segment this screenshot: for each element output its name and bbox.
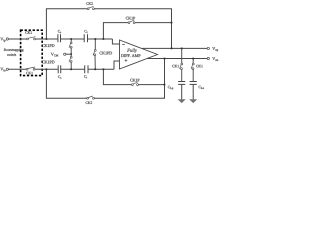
- bootstrapping switch box: [21, 30, 43, 75]
- label CK1 load left: [172, 65, 179, 67]
- capacitor CLn: [190, 82, 197, 100]
- label CK1PD shorting: [100, 52, 112, 55]
- input terminal V_ip: [6, 38, 8, 40]
- op-amp plus input mark: [125, 59, 128, 62]
- wire top outer feedback left: [46, 9, 87, 39]
- node bottom outer tap: [46, 68, 48, 70]
- switch CK1PD top to VCM: [69, 39, 72, 54]
- node bottom VCM switch tap: [70, 68, 72, 70]
- wire Cs to Ci bottom: [61, 68, 85, 70]
- label switch: [7, 53, 16, 55]
- switch CK1 top: [27, 37, 36, 40]
- terminal V_op: [207, 47, 209, 49]
- wire Ci bottom to amp: [88, 68, 114, 70]
- node V_op load junction: [181, 48, 183, 50]
- label CK1PD vcm-bottom: [42, 61, 54, 64]
- switch CK1 load V_on branch: [191, 59, 194, 82]
- node top inner tap: [103, 38, 105, 40]
- switch CK1 load V_op branch: [180, 48, 183, 81]
- label CK2 top: [86, 2, 92, 4]
- wire VCM: [66, 53, 71, 55]
- label CK1P bottom: [130, 79, 139, 82]
- capacitor Ci top: [84, 34, 87, 42]
- wire bottom inner feedback right: [139, 84, 165, 86]
- wire V_in to CK1: [8, 68, 26, 70]
- wire bottom outer feedback left: [46, 69, 86, 98]
- wire bottom inner feedback left: [103, 69, 131, 84]
- terminal VCM: [64, 53, 66, 55]
- node bottom inner tap: [103, 68, 105, 70]
- node bottom feedback merge: [164, 84, 166, 86]
- label CK1P top: [126, 17, 135, 20]
- switch CK1P bottom: [132, 82, 139, 85]
- node top feedback merge: [171, 22, 173, 24]
- label Cs bottom: [58, 76, 61, 79]
- label Fully: [127, 49, 137, 53]
- label Cs top: [58, 30, 61, 33]
- label V_ip: [0, 38, 5, 42]
- switch CK2 bottom: [87, 96, 95, 99]
- terminal V_on: [207, 57, 209, 59]
- capacitor Cs bottom: [58, 65, 61, 73]
- label VCM: [51, 53, 58, 57]
- node V_op feedback junction: [171, 48, 173, 50]
- label Ci bottom: [84, 75, 87, 78]
- wire top inner feedback left: [103, 23, 128, 39]
- switch CK1P top: [128, 20, 135, 23]
- node V_on load junction: [192, 58, 194, 60]
- label CK2 bottom: [86, 102, 92, 104]
- wire output V_on: [147, 58, 207, 60]
- node top VCM switch tap: [70, 38, 72, 40]
- wire Cs to Ci top: [61, 38, 85, 40]
- label V_on: [212, 57, 218, 61]
- label DIFF. AMP: [121, 54, 140, 57]
- label CK1 load right: [196, 65, 203, 67]
- switch CK2 top: [87, 6, 94, 9]
- capacitor Ci bottom: [85, 65, 88, 73]
- op-amp minus input mark: [122, 43, 125, 45]
- label V_op: [212, 47, 218, 51]
- capacitor CLp: [178, 82, 185, 100]
- label CK1 bottom: [26, 72, 33, 74]
- label CLn: [199, 86, 204, 89]
- input terminal V_in: [6, 68, 8, 70]
- ground V_on branch: [189, 99, 197, 103]
- wire V_ip to CK1: [8, 38, 26, 40]
- node VCM: [70, 53, 72, 55]
- wire bottom outer feedback right: [95, 59, 165, 99]
- label Ci top: [84, 30, 87, 33]
- wire top inner feedback right: [135, 22, 171, 24]
- wire top outer feedback right: [95, 9, 172, 49]
- switch CK1PD input shorting: [93, 39, 96, 69]
- node V_on feedback junction: [164, 58, 166, 60]
- label Bootstrapping: [4, 49, 24, 52]
- wire Ci top to amp: [88, 38, 113, 40]
- label V_in: [0, 68, 5, 72]
- capacitor Cs top: [58, 34, 61, 42]
- label CK1 top: [25, 31, 32, 33]
- ground V_op branch: [178, 99, 186, 103]
- wire output V_op: [142, 47, 207, 49]
- node bottom shorting switch tap: [94, 68, 96, 70]
- label CLp: [168, 86, 173, 90]
- switch CK1PD bottom to VCM: [69, 54, 72, 69]
- node top shorting switch tap: [94, 38, 96, 40]
- wire bottom step into amp: [114, 61, 120, 69]
- wire CK1 to Cs bottom: [35, 68, 58, 70]
- node top outer tap: [46, 38, 48, 40]
- wire CK1 to Cs top: [36, 38, 58, 40]
- switch CK1 bottom: [26, 67, 35, 70]
- op-amp U1 fully differential: [120, 40, 158, 69]
- wire top step into amp: [112, 39, 119, 44]
- label CK1PD vcm-top: [42, 44, 54, 47]
